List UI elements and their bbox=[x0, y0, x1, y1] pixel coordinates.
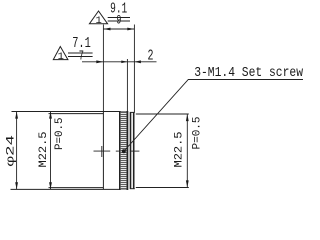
arrowhead 7.1 right / 2 left (tip at 127.4) bbox=[121, 61, 127, 64]
dimension line 9.1 bbox=[103, 28, 134, 30]
centerline dash 2 bbox=[116, 150, 119, 152]
revision triangle 1 (top) bbox=[89, 11, 107, 24]
strike line upper over 7 bbox=[68, 52, 93, 54]
arrowhead M22.5 right bottom bbox=[186, 180, 189, 187]
arrowhead phi24 bottom bbox=[15, 182, 18, 189]
body bottom edge bbox=[11, 188, 128, 190]
extension line 9.1 right bbox=[133, 25, 135, 113]
svg-text:2: 2 bbox=[148, 48, 154, 65]
arrowhead 9.1 left bbox=[103, 28, 110, 31]
centerline vertical tick bbox=[101, 146, 103, 157]
svg-text:1: 1 bbox=[95, 15, 101, 27]
strike line upper over 9 bbox=[108, 17, 130, 19]
centerline dash 1 bbox=[94, 150, 111, 152]
body top edge bbox=[12, 111, 128, 113]
revision triangle 2 (middle) bbox=[53, 47, 68, 60]
knurl serration lines bbox=[121, 113, 127, 189]
centerline dash 3 bbox=[130, 150, 140, 152]
retaining ring bottom cap bbox=[130, 188, 135, 190]
retaining ring left line bbox=[130, 112, 132, 188]
knurled ring left edge bbox=[119, 111, 121, 190]
svg-text:M22.5: M22.5 bbox=[174, 132, 186, 168]
M22.5 left dimension line bbox=[50, 112, 52, 190]
svg-text:P=0.5: P=0.5 bbox=[192, 117, 204, 150]
arrowhead phi24 top bbox=[15, 112, 18, 119]
leader line to set screw bbox=[124, 80, 303, 152]
thread shoulder face bbox=[102, 112, 104, 190]
extension line 9.1 left bbox=[102, 25, 104, 112]
right thread extension line top bbox=[136, 113, 189, 115]
retaining ring top cap bbox=[130, 111, 135, 113]
strike line lower over 9 bbox=[108, 20, 130, 22]
right thread extension line bottom bbox=[136, 187, 189, 189]
knurl band backing bbox=[121, 112, 127, 190]
strike line lower over 7 bbox=[68, 56, 93, 58]
svg-text:M22.5: M22.5 bbox=[38, 132, 50, 168]
extension line 7.1 right bbox=[126, 59, 128, 112]
set screw dot bbox=[122, 149, 126, 153]
thread crest line bottom left M22.5 bbox=[49, 187, 104, 189]
M22.5 right dimension line bbox=[186, 114, 188, 188]
dimension line 7.1/2 row bbox=[82, 61, 157, 63]
thread crest line top left M22.5 bbox=[49, 113, 104, 115]
svg-text:3-M1.4 Set screw: 3-M1.4 Set screw bbox=[194, 65, 303, 81]
arrowhead M22.5 left bottom bbox=[49, 182, 52, 189]
svg-text:P=0.5: P=0.5 bbox=[54, 118, 66, 151]
svg-text:1: 1 bbox=[58, 51, 64, 63]
phi24 dimension line bbox=[16, 112, 18, 190]
retaining ring right line / right end face bbox=[133, 112, 135, 188]
knurled ring right edge bbox=[126, 111, 128, 190]
arrowhead 7.1 left (tip at shoulder) bbox=[96, 60, 103, 63]
svg-text:φ24: φ24 bbox=[6, 134, 18, 166]
arrowhead 9.1 right bbox=[127, 28, 134, 31]
arrowhead M22.5 right top bbox=[186, 114, 189, 121]
arrowhead M22.5 left top bbox=[49, 112, 52, 119]
svg-text:9: 9 bbox=[116, 13, 121, 28]
arrowhead 2 right (tip at end face) bbox=[134, 60, 141, 63]
